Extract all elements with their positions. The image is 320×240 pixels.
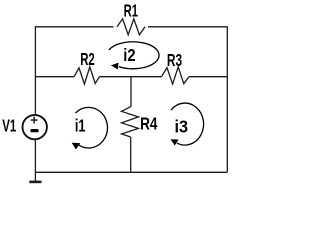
svg-text:R1: R1 (124, 0, 139, 20)
resistor R2 zigzag (74, 67, 99, 84)
V1 minus terminal mark (30, 129, 38, 132)
voltage source V1 (23, 115, 47, 139)
wire right vertical (226, 26, 228, 172)
svg-text:R2: R2 (80, 49, 95, 69)
resistor R1 zigzag (117, 19, 145, 35)
wire middle horizontal center (R2 to R3) (99, 76, 161, 78)
wire middle vertical lower (R4 to bottom wire) (130, 137, 132, 172)
i2 loop arc (109, 42, 159, 69)
wire bottom horizontal (35, 171, 227, 173)
resistor R3 zigzag (162, 67, 190, 84)
wire top-left segment (35, 26, 113, 28)
ground bar (29, 181, 41, 184)
svg-text:i2: i2 (123, 45, 135, 65)
V1 circle body (23, 115, 47, 139)
wire top-right segment (148, 26, 227, 28)
mesh current loop i3 (171, 103, 204, 145)
ground (29, 172, 41, 182)
wire middle vertical upper (junction to R4) (130, 77, 132, 107)
i2 arrowhead (111, 63, 119, 70)
V1 plus terminal mark (31, 117, 38, 124)
wire middle horizontal left (to R2) (35, 76, 74, 78)
svg-text:R3: R3 (167, 50, 182, 70)
svg-text:i3: i3 (175, 117, 189, 137)
resistor R4 zigzag (122, 107, 139, 138)
i1 loop arc (75, 107, 107, 148)
mesh current loop i1 (72, 107, 108, 149)
svg-text:i1: i1 (75, 115, 86, 135)
wire left vertical (V1 bottom to bottom wire) (34, 140, 36, 172)
wire left vertical (top corner to V1 top) (34, 26, 36, 114)
i1 arrowhead (72, 143, 81, 150)
wire middle horizontal right (R3 to right vertical) (189, 76, 227, 78)
svg-text:V1: V1 (2, 115, 16, 135)
i3 arrowhead (171, 139, 179, 145)
i3 loop arc (171, 103, 204, 145)
ground stub wire (34, 172, 36, 181)
mesh current loop i2 (109, 42, 159, 70)
svg-text:R4: R4 (140, 114, 158, 134)
